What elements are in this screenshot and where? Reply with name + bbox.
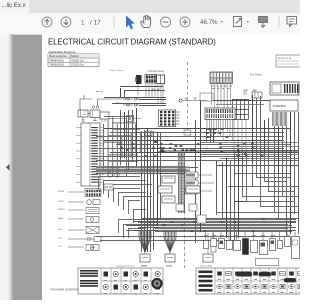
applicable machine table — [48, 50, 99, 67]
label engine — [110, 69, 125, 72]
junction box J3 — [184, 130, 191, 135]
svg-text:TM06A0501: TM06A0501 — [49, 63, 64, 67]
label FL — [96, 91, 119, 103]
resistor R1 — [211, 233, 216, 252]
connector CN-G — [104, 184, 113, 190]
wires from top connectors — [138, 84, 163, 103]
svg-text:HEAT: HEAT — [58, 217, 64, 220]
sensor S2 — [68, 245, 99, 251]
relay K10 — [176, 204, 184, 211]
label fan series — [250, 74, 262, 77]
right corner bends — [243, 152, 299, 219]
svg-text:HORN: HORN — [58, 191, 64, 193]
diode box D3 — [109, 116, 141, 122]
svg-text:46.7%: 46.7% — [200, 19, 218, 26]
separator — [113, 16, 115, 28]
gauge G1 — [108, 173, 119, 177]
connector row CN-R — [252, 92, 262, 98]
comment icon — [287, 17, 297, 27]
hand tool — [141, 15, 151, 27]
connector strip CN-E — [76, 123, 104, 186]
previous page button — [42, 17, 52, 27]
zoom out — [161, 17, 171, 27]
fuse pair F1 — [123, 98, 140, 106]
note box — [276, 55, 302, 67]
svg-text:TM06-8N4R D5/09/8789: TM06-8N4R D5/09/8789 — [50, 288, 79, 292]
legend table left — [78, 265, 163, 295]
svg-text:OPT: OPT — [58, 246, 63, 248]
relay cluster K1-K4 — [159, 110, 180, 127]
fuse box FB2 — [270, 82, 299, 95]
horizontal wire bundles — [96, 87, 298, 241]
fit width icon — [259, 17, 268, 28]
dashed line center — [184, 175, 186, 268]
relay K12 — [197, 215, 206, 223]
connector CN-B — [145, 75, 156, 84]
svg-text:Applicable Machine: Applicable Machine — [49, 50, 76, 54]
svg-text:Legend (Connector): Legend (Connector) — [116, 265, 134, 268]
junction box J2 — [146, 131, 153, 136]
svg-text:WIPER: WIPER — [58, 209, 65, 211]
page number — [81, 19, 101, 26]
ground bundle 1 — [139, 231, 151, 267]
svg-text:ZX225-3cl: ZX225-3cl — [71, 63, 84, 67]
svg-text:Cylinder Series: Cylinder Series — [148, 70, 165, 73]
svg-text:Model: Model — [71, 54, 79, 58]
labels under connectors — [144, 86, 162, 90]
battery wires — [80, 95, 127, 114]
switch SW2 — [68, 217, 99, 223]
battery B1 — [78, 106, 100, 118]
next page button — [61, 17, 71, 27]
connector CN-F — [68, 189, 101, 197]
svg-text:ELECTRICAL CIRCUIT DIAGRAM (ST: ELECTRICAL CIRCUIT DIAGRAM (STANDARD) — [48, 37, 216, 46]
relay K6 — [162, 176, 175, 183]
horn H1 — [68, 200, 100, 205]
ground bundle 2 — [164, 231, 176, 267]
relay K9 — [162, 196, 175, 203]
svg-text:1: 1 — [81, 19, 85, 26]
diode D2 — [253, 90, 257, 95]
document number — [50, 288, 79, 292]
sensor S1 — [68, 237, 101, 242]
svg-text:Fan Series: Fan Series — [250, 74, 262, 77]
fuse box FB1 — [210, 72, 233, 117]
connector CN-D — [205, 108, 235, 140]
ground 3 — [203, 233, 213, 262]
svg-text:ACC: ACC — [58, 228, 63, 231]
switch SW3 — [68, 227, 99, 234]
svg-text:TM06A0501: TM06A0501 — [49, 58, 64, 62]
separator — [278, 16, 280, 28]
svg-text:NOTE 5W-30: NOTE 5W-30 — [278, 58, 292, 60]
wire number tags — [119, 128, 298, 232]
svg-text:LIGHT: LIGHT — [58, 201, 65, 203]
solenoid feed stubs — [206, 232, 296, 240]
fit page icon — [234, 17, 242, 27]
connector CN-J — [185, 188, 212, 194]
relay K7 — [158, 186, 172, 193]
ground battery — [81, 117, 97, 122]
svg-text:FUSE BOX: FUSE BOX — [273, 104, 286, 108]
wire bundle hatch — [178, 153, 185, 213]
solenoid valve row — [204, 235, 300, 265]
relay K11 — [189, 204, 197, 211]
svg-text:Engine Series: Engine Series — [110, 69, 125, 72]
svg-text:Harness Wire: Harness Wire — [200, 266, 213, 268]
zoom in — [180, 17, 190, 27]
svg-text:/ 17: / 17 — [90, 19, 101, 26]
svg-text:ZX200-3cl: ZX200-3cl — [71, 58, 84, 62]
connector CN-C — [157, 75, 165, 84]
svg-text:KEY: KEY — [58, 238, 63, 240]
relay K8 — [186, 186, 200, 193]
select tool (arrow) — [126, 16, 135, 30]
relay box R10 — [270, 100, 298, 111]
legend table right — [196, 266, 305, 295]
label cylinder series — [148, 70, 165, 73]
connector CN-A — [135, 75, 141, 84]
pin bundle under fuse box — [273, 112, 287, 126]
dashed boundary line — [187, 62, 189, 133]
title text — [48, 37, 216, 46]
vertical wire runs — [121, 88, 299, 252]
node A — [179, 93, 213, 102]
component labels — [58, 191, 65, 248]
connector CN-I — [185, 180, 214, 186]
svg-text:Book serial No.: Book serial No. — [49, 54, 67, 58]
switch SW1 — [68, 208, 99, 214]
terminal block TB1 — [232, 99, 249, 150]
connector CN-H — [185, 172, 212, 178]
diode D1 — [244, 90, 248, 95]
starter relay K5 — [100, 112, 109, 122]
